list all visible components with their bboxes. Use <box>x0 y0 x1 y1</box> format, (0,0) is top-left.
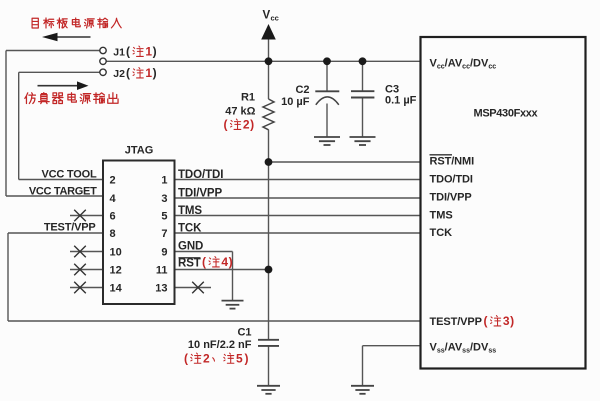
svg-text:cc: cc <box>271 14 279 23</box>
svg-text:VCC TARGET: VCC TARGET <box>29 186 97 198</box>
svg-text:(: ( <box>126 45 130 59</box>
svg-text:(: ( <box>202 255 206 269</box>
svg-text:J1: J1 <box>113 47 125 59</box>
svg-text:TMS: TMS <box>178 205 202 217</box>
svg-text:): ) <box>245 352 249 366</box>
svg-text:TEST/VPP: TEST/VPP <box>44 222 96 234</box>
svg-text:TCK: TCK <box>430 227 453 239</box>
svg-text:1: 1 <box>145 66 152 80</box>
svg-text:C2: C2 <box>295 84 309 96</box>
svg-text:GND: GND <box>178 241 203 253</box>
svg-text:3: 3 <box>161 193 167 205</box>
svg-text:TDO/TDI: TDO/TDI <box>430 174 473 186</box>
svg-text:2: 2 <box>243 118 250 132</box>
svg-text:VCC TOOL: VCC TOOL <box>41 169 97 181</box>
svg-text:1: 1 <box>161 175 167 187</box>
svg-text:TDI/VPP: TDI/VPP <box>430 192 472 204</box>
svg-text:): ) <box>229 255 233 269</box>
svg-text:R1: R1 <box>241 92 255 104</box>
svg-text:7: 7 <box>161 228 167 240</box>
svg-text:5: 5 <box>161 211 167 223</box>
svg-text:TEST/VPP: TEST/VPP <box>430 316 482 328</box>
svg-text:C1: C1 <box>237 327 251 339</box>
svg-text:0.1 µF: 0.1 µF <box>385 95 417 107</box>
svg-text:3: 3 <box>503 314 510 328</box>
svg-text:6: 6 <box>110 211 116 223</box>
svg-text:V: V <box>263 10 271 22</box>
svg-text:): ) <box>153 45 157 59</box>
svg-text:12: 12 <box>110 265 122 277</box>
svg-text:(: ( <box>184 352 188 366</box>
svg-text:14: 14 <box>110 283 123 295</box>
svg-text:RST/NMI: RST/NMI <box>430 156 475 168</box>
svg-text:(: ( <box>484 314 488 328</box>
svg-text:RST: RST <box>178 258 201 270</box>
svg-text:2: 2 <box>110 175 116 187</box>
svg-text:47 kΩ: 47 kΩ <box>225 106 255 118</box>
svg-text:JTAG: JTAG <box>125 145 154 157</box>
svg-text:13: 13 <box>155 283 167 295</box>
svg-text:TMS: TMS <box>430 210 453 222</box>
svg-text:TDO/TDI: TDO/TDI <box>178 169 223 181</box>
svg-text:2: 2 <box>203 352 210 366</box>
svg-text:10: 10 <box>110 247 122 259</box>
svg-text:8: 8 <box>110 228 116 240</box>
svg-text:(: ( <box>224 118 228 132</box>
svg-text:10 µF: 10 µF <box>281 96 310 108</box>
svg-text:4: 4 <box>110 193 117 205</box>
svg-text:10 nF/2.2 nF: 10 nF/2.2 nF <box>188 339 252 351</box>
svg-text:5: 5 <box>236 352 243 366</box>
svg-text:(: ( <box>126 66 130 80</box>
svg-text:): ) <box>250 118 254 132</box>
svg-text:11: 11 <box>156 265 168 277</box>
svg-text:TCK: TCK <box>178 223 202 235</box>
svg-text:J2: J2 <box>113 68 125 80</box>
svg-text:MSP430Fxxx: MSP430Fxxx <box>474 108 539 120</box>
svg-text:9: 9 <box>161 247 167 259</box>
svg-text:): ) <box>153 66 157 80</box>
svg-text:4: 4 <box>221 255 228 269</box>
svg-text:1: 1 <box>145 45 152 59</box>
svg-text:TDI/VPP: TDI/VPP <box>178 188 222 200</box>
svg-text:): ) <box>510 314 514 328</box>
